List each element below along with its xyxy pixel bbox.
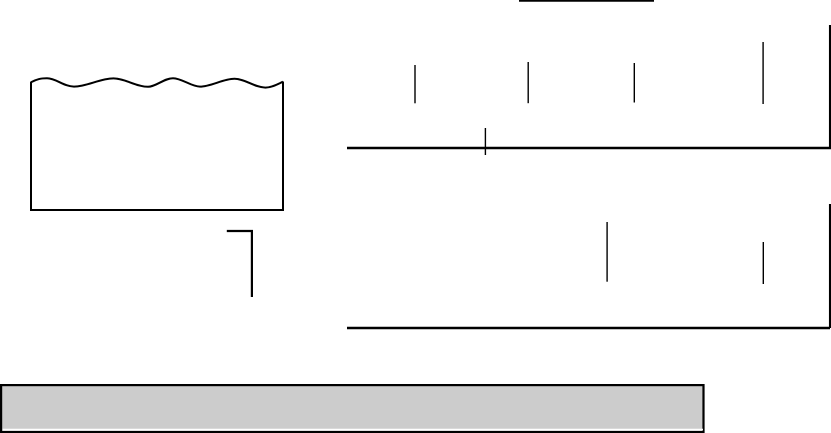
ruled group 1: baseline (347, 147, 831, 150)
box with wavy top: left edge (30, 82, 32, 211)
box with wavy top: wavy top edge (31, 78, 283, 87)
ruled group 2: right vertical (829, 204, 831, 328)
ruled group 1: tick 2 (527, 62, 529, 103)
gray bar inner highlight (3, 429, 704, 431)
ruled group 2: tick 1 (606, 222, 608, 282)
box with wavy top: right edge (282, 82, 284, 212)
ruled group 1: tick 4 (tall) (762, 42, 764, 104)
ruled group 1: crossing tick (484, 128, 486, 155)
ruled group 1: tick 3 (633, 63, 635, 103)
box with wavy top: bottom edge (30, 209, 284, 211)
top rule (519, 0, 654, 2)
ruled group 2: baseline (347, 327, 830, 330)
ruled group 2: tick 2 (762, 242, 764, 284)
ruled group 1: tick 1 (414, 65, 416, 103)
gray bar fill (1, 385, 703, 432)
corner bracket (227, 231, 252, 297)
ruled group 1: right vertical (829, 25, 831, 148)
